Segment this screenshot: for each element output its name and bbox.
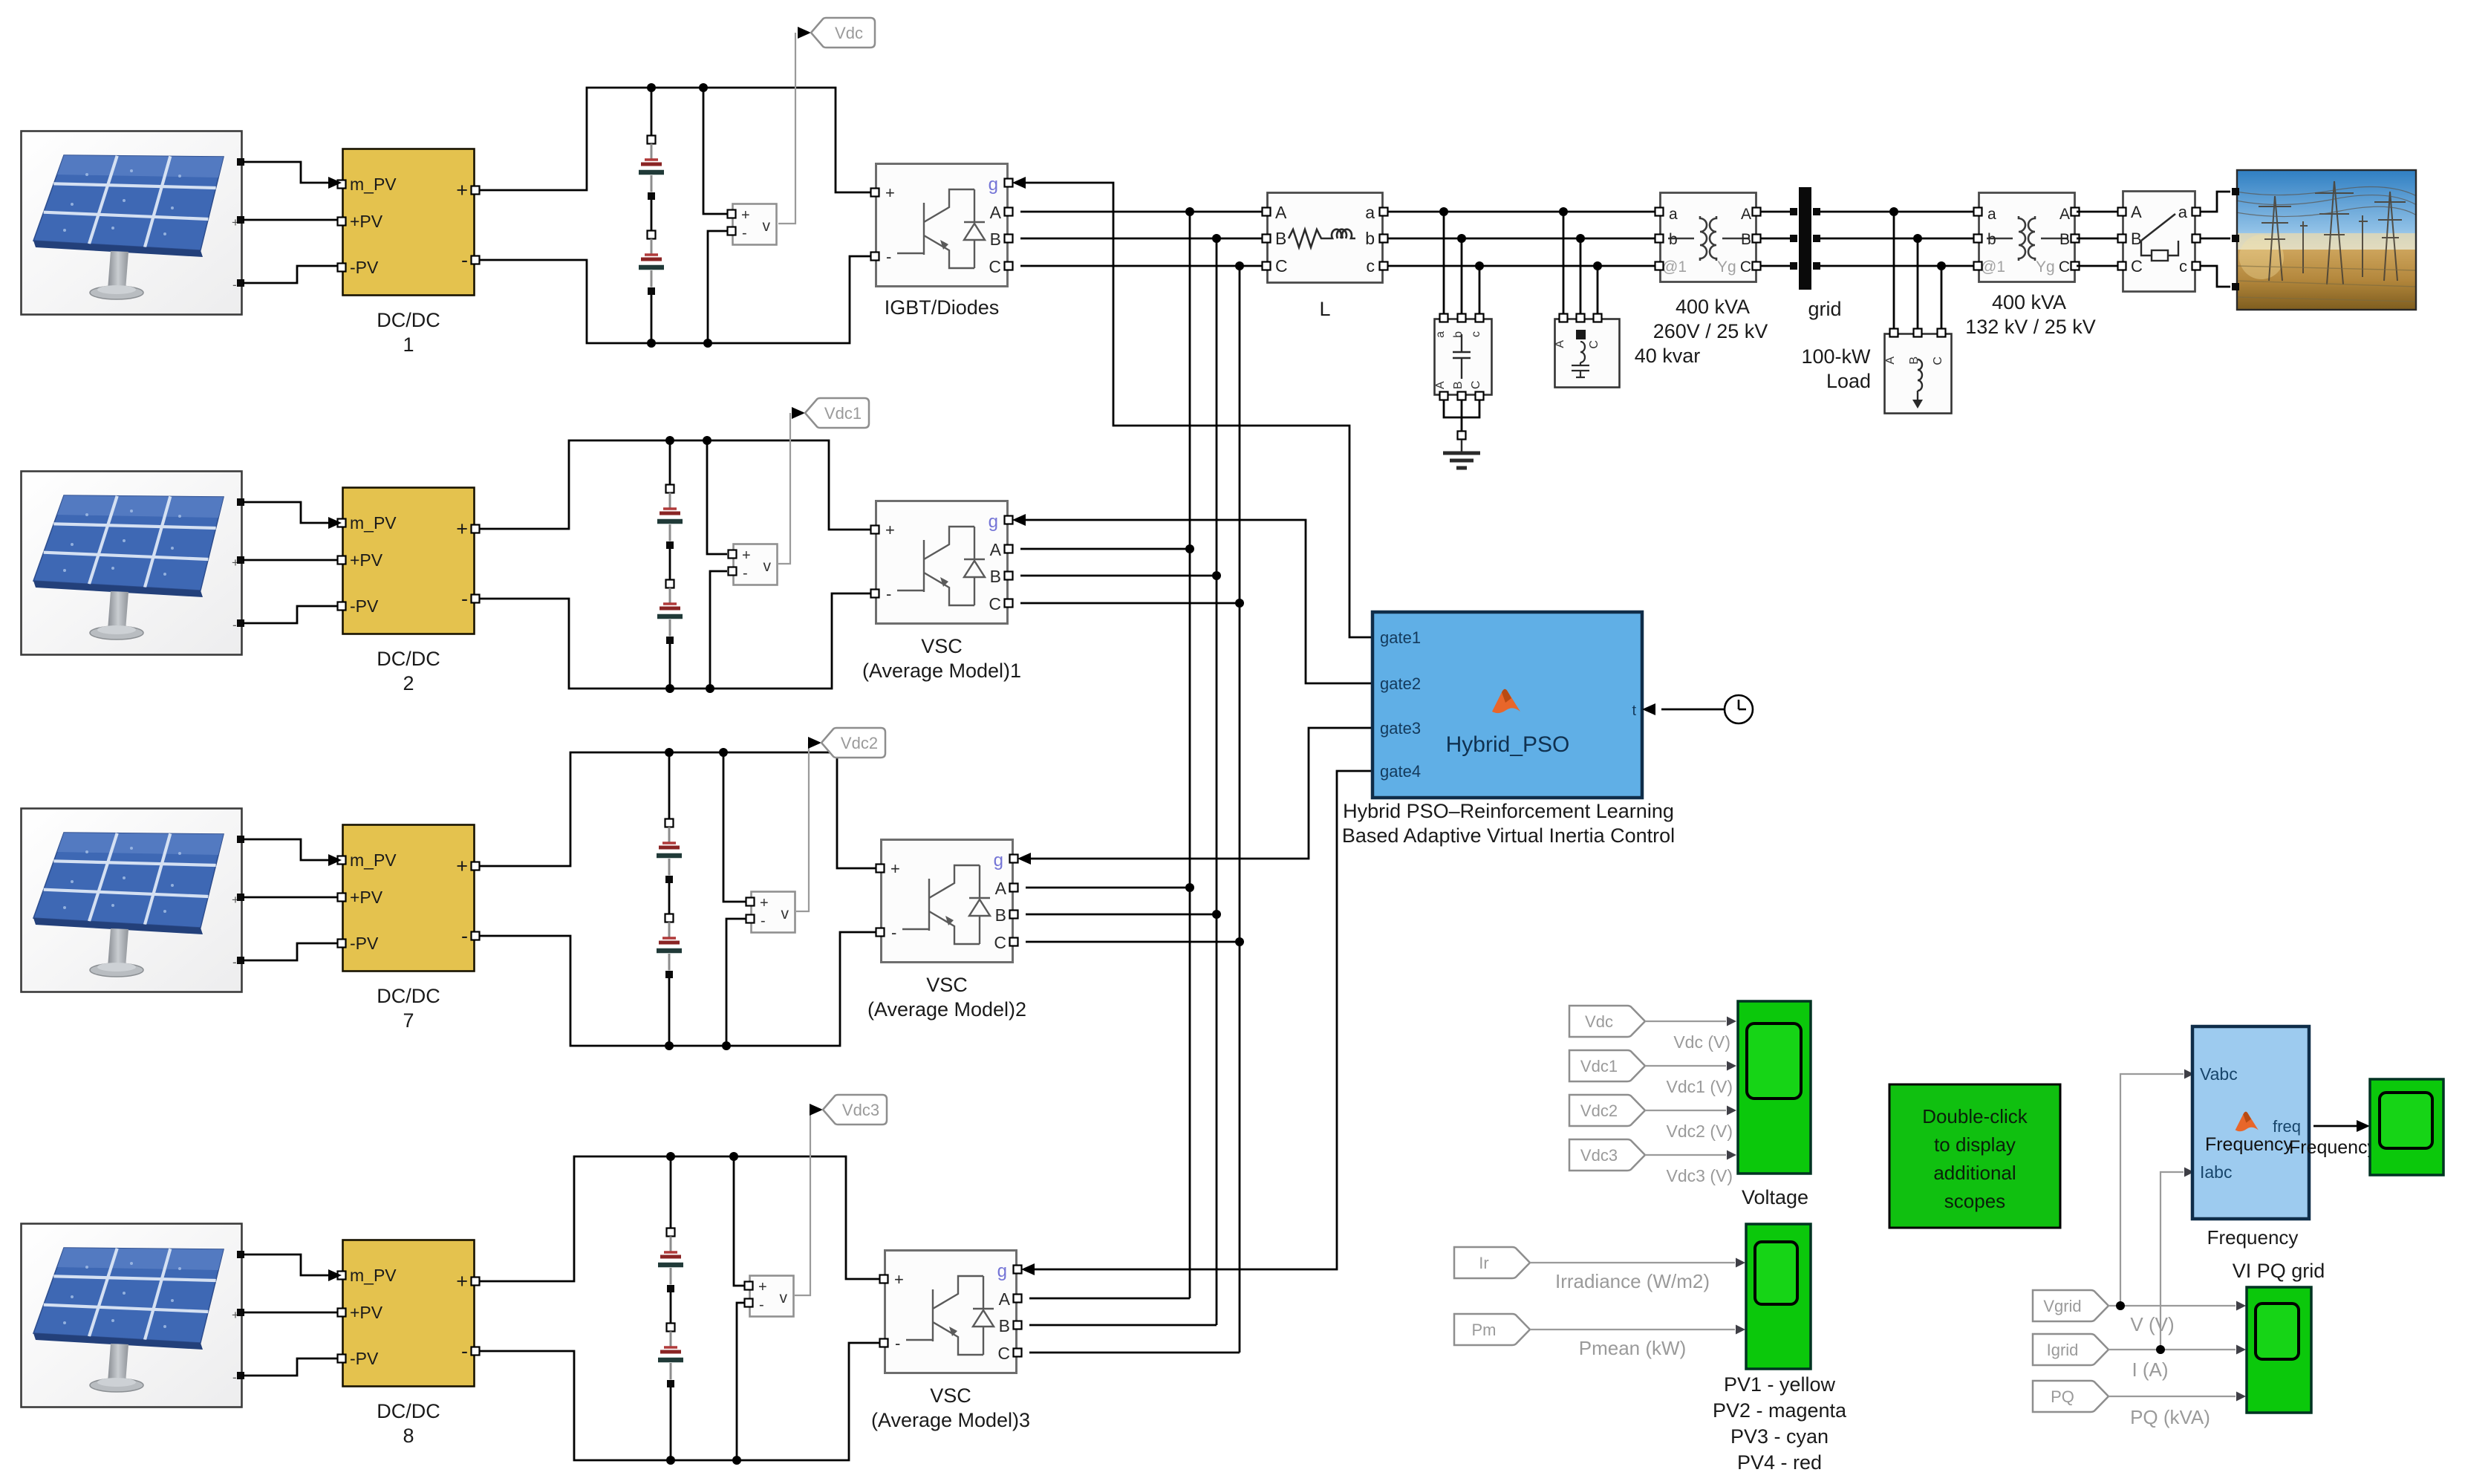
svg-text:Vdc2: Vdc2 (841, 734, 878, 752)
svg-text:132 kV / 25 kV: 132 kV / 25 kV (1965, 316, 2096, 338)
svg-text:Vdc3: Vdc3 (842, 1101, 879, 1119)
svg-text:40 kvar: 40 kvar (1635, 345, 1701, 367)
svg-text:VI PQ grid: VI PQ grid (2233, 1260, 2325, 1282)
svg-text:to display: to display (1934, 1133, 2016, 1156)
svg-text:B: B (1275, 229, 1286, 248)
svg-text:A: A (1275, 203, 1287, 222)
svg-text:b: b (1452, 331, 1465, 338)
svg-text:400 kVA: 400 kVA (1676, 296, 1750, 318)
svg-text:Iabc: Iabc (2200, 1162, 2232, 1182)
svg-text:Pm: Pm (1472, 1321, 1497, 1339)
svg-text:A: A (1884, 357, 1897, 365)
svg-text:VSC: VSC (921, 635, 963, 657)
svg-text:Vdc1: Vdc1 (824, 404, 862, 423)
svg-text:400 kVA: 400 kVA (1992, 291, 2066, 313)
svg-text:C: C (1275, 256, 1288, 276)
svg-text:Vdc3 (V): Vdc3 (V) (1667, 1166, 1733, 1185)
svg-text:8: 8 (403, 1425, 414, 1447)
svg-text:b: b (1365, 229, 1375, 248)
svg-text:PV4 - red: PV4 - red (1737, 1451, 1822, 1474)
svg-text:freq: freq (2273, 1117, 2301, 1136)
svg-text:Irradiance (W/m2): Irradiance (W/m2) (1555, 1270, 1710, 1292)
svg-text:I (A): I (A) (2132, 1358, 2168, 1381)
svg-text:(Average Model)2: (Average Model)2 (867, 998, 1026, 1021)
svg-text:C: C (1932, 357, 1944, 365)
svg-text:V (V): V (V) (2130, 1313, 2174, 1335)
svg-text:C: C (1588, 340, 1601, 349)
svg-text:Vdc: Vdc (1585, 1012, 1613, 1031)
svg-text:Igrid: Igrid (2047, 1341, 2079, 1359)
svg-text:grid: grid (1808, 298, 1841, 320)
svg-text:gate4: gate4 (1380, 762, 1421, 781)
svg-text:t: t (1632, 703, 1636, 719)
svg-text:PQ (kVA): PQ (kVA) (2130, 1406, 2210, 1428)
svg-text:DC/DC: DC/DC (377, 309, 440, 331)
svg-text:DC/DC: DC/DC (377, 1400, 440, 1422)
svg-text:Double-click: Double-click (1922, 1105, 2028, 1127)
svg-text:Based Adaptive Virtual Inertia: Based Adaptive Virtual Inertia Control (1342, 824, 1675, 847)
svg-text:scopes: scopes (1944, 1190, 2005, 1212)
svg-text:1: 1 (403, 333, 414, 356)
svg-text:(Average Model)1: (Average Model)1 (862, 660, 1021, 682)
svg-text:Vdc1 (V): Vdc1 (V) (1667, 1077, 1733, 1096)
svg-text:Frequency: Frequency (2207, 1226, 2299, 1249)
svg-text:DC/DC: DC/DC (377, 648, 440, 670)
svg-text:a: a (2178, 203, 2188, 221)
svg-text:PV3 - cyan: PV3 - cyan (1730, 1425, 1829, 1448)
svg-text:Vdc3: Vdc3 (1580, 1146, 1618, 1165)
svg-text:a: a (1434, 331, 1447, 338)
svg-text:C: C (2131, 257, 2143, 276)
svg-text:gate3: gate3 (1380, 719, 1421, 738)
svg-text:a: a (1365, 203, 1375, 222)
svg-text:IGBT/Diodes: IGBT/Diodes (885, 296, 1000, 319)
svg-text:B: B (1452, 381, 1465, 389)
svg-text:Vdc: Vdc (835, 24, 863, 42)
svg-text:Hybrid_PSO: Hybrid_PSO (1446, 732, 1570, 757)
svg-text:VSC: VSC (926, 974, 968, 996)
svg-text:additional: additional (1933, 1162, 2016, 1184)
svg-text:PQ: PQ (2051, 1387, 2074, 1406)
svg-text:gate2: gate2 (1380, 674, 1421, 693)
svg-text:c: c (2179, 257, 2187, 276)
svg-text:Hybrid PSO–Reinforcement Learn: Hybrid PSO–Reinforcement Learning (1343, 800, 1674, 822)
svg-text:A: A (1434, 381, 1447, 389)
svg-text:c: c (1367, 256, 1375, 276)
svg-text:Frequency: Frequency (2289, 1137, 2377, 1158)
svg-text:gate1: gate1 (1380, 628, 1421, 647)
svg-text:Vgrid: Vgrid (2043, 1297, 2081, 1315)
svg-text:Voltage: Voltage (1742, 1186, 1808, 1208)
svg-text:100-kW: 100-kW (1801, 345, 1871, 368)
svg-text:Vdc2: Vdc2 (1580, 1101, 1618, 1120)
svg-text:Vdc1: Vdc1 (1580, 1057, 1618, 1075)
svg-text:PV1 - yellow: PV1 - yellow (1724, 1373, 1836, 1396)
svg-text:L: L (1319, 298, 1330, 320)
svg-text:C: C (1470, 380, 1482, 389)
svg-text:2: 2 (403, 672, 414, 694)
svg-text:B: B (2131, 230, 2142, 248)
svg-text:Vdc (V): Vdc (V) (1673, 1032, 1730, 1052)
svg-text:Vabc: Vabc (2200, 1064, 2238, 1084)
svg-text:Frequency: Frequency (2205, 1134, 2293, 1155)
svg-text:VSC: VSC (930, 1384, 971, 1407)
svg-text:7: 7 (403, 1009, 414, 1032)
svg-text:(Average Model)3: (Average Model)3 (871, 1409, 1030, 1431)
svg-text:Ir: Ir (1479, 1254, 1488, 1272)
svg-text:A: A (1554, 340, 1566, 348)
svg-text:Load: Load (1826, 370, 1871, 392)
svg-text:Vdc2 (V): Vdc2 (V) (1667, 1122, 1733, 1141)
svg-text:c: c (1470, 331, 1482, 337)
svg-text:DC/DC: DC/DC (377, 985, 440, 1007)
svg-text:A: A (2131, 203, 2142, 221)
svg-text:260V / 25 kV: 260V / 25 kV (1653, 320, 1768, 342)
svg-text:Pmean (kW): Pmean (kW) (1579, 1337, 1686, 1359)
svg-text:PV2 - magenta: PV2 - magenta (1713, 1399, 1847, 1422)
